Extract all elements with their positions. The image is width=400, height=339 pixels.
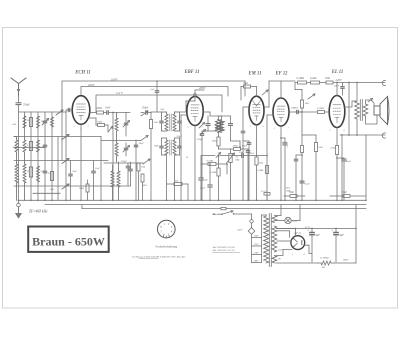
svg-text:250pF: 250pF [23,104,30,107]
svg-text:0,1: 0,1 [27,145,30,147]
svg-text:220V: 220V [237,229,243,232]
svg-text:50pF: 50pF [139,142,145,145]
power transformer heater winding 6.3V [272,216,277,223]
capacitor 500pF det [200,133,203,135]
svg-text:EF 12: EF 12 [274,72,288,77]
svg-text:50nF: 50nF [239,151,245,154]
oscillator coil stack 2 [115,143,118,156]
coil L6 row2 [37,140,40,152]
svg-text:5kΩ: 5kΩ [13,124,17,126]
wire HT left to rectifier [277,240,291,242]
resistor row2 [29,142,32,151]
resistor 2k osc [149,120,152,129]
switch arrow osc row2 [141,136,148,141]
field coil Fe [321,261,331,265]
heater bus wire middle [45,204,366,206]
capacitor 0.1uF screen [300,180,304,182]
wire secondary top to speaker [366,100,375,106]
IF2 capacitor secondary [229,123,233,125]
capacitor osc grid [134,144,137,146]
svg-text:1kΩ: 1kΩ [305,102,309,105]
vertical x201 branch [200,156,202,178]
power transformer HT winding [272,226,277,252]
vertical wire x31 [30,112,32,200]
resistor 5k [314,143,317,152]
tube EF12 envelope [273,98,289,126]
capacitor 250pF antenna series [18,96,20,102]
oscillator trimmer 2 [124,147,127,149]
svg-text:8μF: 8μF [316,234,321,237]
ground bus wire [19,199,367,201]
svg-text:1MΩ: 1MΩ [97,120,102,123]
rectifier AZ11 [291,236,305,250]
voltage tap 220V [252,254,262,256]
ground symbol earth [18,200,20,203]
svg-text:6,3V: 6,3V [278,249,283,252]
wire EBF11 plate right [203,111,210,113]
svg-text:25μF: 25μF [200,187,206,190]
mains switch wire [218,213,223,215]
capacitor row2 [43,144,46,146]
dial lamp wire [276,220,285,222]
svg-text:ZF=468 kHz: ZF=468 kHz [29,210,48,214]
wire row y193 left block [33,192,60,194]
capacitor 50nF mid [92,170,95,172]
svg-text:Sockelschaltung: Sockelschaltung [155,244,177,248]
svg-text:40Ω: 40Ω [143,184,147,187]
resistor R input [29,118,32,127]
tube ECH11 envelope [72,96,90,125]
electrolytic 5uF [199,177,203,179]
svg-text:240V: 240V [343,258,349,261]
wire ECH11 grid left [66,109,72,111]
tube EL11 envelope [329,96,345,128]
vertical wire x174 to bus [174,155,176,200]
wire EF12 top to rail [280,81,282,98]
svg-text:25μF: 25μF [346,161,351,163]
IF2 capacitor primary [206,123,210,125]
wire EM11 grid left [243,106,249,108]
svg-text:5μF: 5μF [204,179,208,182]
capacitor row3 [43,170,46,172]
padder capacitor row [126,165,129,167]
resistor 50ohm rail [326,81,333,84]
wire segment for 50ohm resistor right [330,195,343,197]
resistor 20k cathode [86,184,89,192]
wire EBF plate over detector coil [210,112,231,121]
wire heater winding top to bus [276,215,281,217]
switch arrow speaker [368,99,373,103]
output transformer secondary [363,104,368,116]
wire primary top to rail [356,83,358,102]
switch arrow band row4 [62,184,69,189]
vertical wire x240 AVC [239,141,241,147]
switch arrow below ECH11 [108,127,113,133]
bottom hook connector [382,133,385,138]
IF1 tuning capacitor primary [160,120,163,122]
svg-text:Fe 880Ω: Fe 880Ω [319,257,329,260]
oscillator coil stack 3 second winding [111,171,114,187]
svg-text:ECH 11: ECH 11 [74,71,91,76]
resistor 0.1M lower [217,168,220,176]
wire 200V rail [81,87,228,97]
switch arrow tone [308,94,315,99]
capacitor 50nF EL11 screen [294,83,296,90]
power transformer rectifier filament winding 4V [272,256,277,264]
right rail hook connector top [382,80,385,85]
IF transformer 1 secondary winding [173,114,176,131]
svg-text:0,1μF: 0,1μF [305,184,311,186]
resistor grid EL11 [318,111,325,114]
capacitor mid [294,158,297,160]
wire EBF11 cathode [194,126,196,201]
vertical wire x24 [24,112,26,137]
detector IF coil cluster [215,120,225,133]
IF transformer 1 primary winding [160,112,181,155]
vertical wire x342 down [341,135,343,200]
svg-text:AZ 11: AZ 11 [293,231,302,235]
svg-text:110V: 110V [254,235,259,238]
svg-text:+: + [307,229,309,233]
svg-text:Braun - 650W: Braun - 650W [32,235,105,249]
wire transformer bottom [275,262,277,264]
wire EM11 right [264,106,269,108]
vertical wire x101 [100,137,102,201]
svg-text:EM 11: EM 11 [248,72,262,77]
svg-text:250pF: 250pF [142,107,149,110]
speaker cone [380,97,388,125]
resistor 2k AVC [234,148,241,151]
vertical wire x113 [112,113,114,201]
vertical wire x136 [135,140,137,200]
capacitor 10nF coupling [104,112,107,114]
wire ECH11 cathode down [80,124,82,200]
wire detector AVC right [231,131,241,141]
resistor 1k osc mid [137,163,140,171]
vertical wire x38 [37,112,39,200]
wire mid row y164 [104,162,143,164]
svg-text:8μF: 8μF [340,234,345,237]
svg-text:50nF: 50nF [242,145,248,148]
svg-text:500pF: 500pF [197,138,204,141]
coil L9 row3 [37,166,40,182]
wire RF row1 [19,111,67,113]
capacitor 10nF cathode area [69,173,72,175]
resistor 1.2M EF12 grid leak [265,166,268,174]
wire HT winding second anode [277,230,290,232]
switch arrow osc row1 [141,111,148,116]
output transformer primary [355,101,360,119]
resistor EL11 cathode [335,146,338,155]
wire det row y148 [218,148,220,149]
IF transformer 1 lower winding pair [165,140,168,155]
capacitor 50nF AF coupling [241,154,243,158]
fuse on heater line near transformer [264,193,270,196]
tube EBF11 envelope [187,97,203,126]
Bei text underline [213,251,240,253]
dial lamp [285,217,291,223]
resistor row3 [29,167,32,177]
svg-text:220V: 220V [254,252,260,255]
wire filament winding to rectifier [276,250,292,256]
svg-text:Farbbezug: Punkt 220/240 V, 46: Farbbezug: Punkt 220/240 V, 468 kHz, KW:… [131,255,186,258]
wire y135 mid [302,134,316,136]
resistor 200ohm plate [95,112,98,114]
resistor 5k EM11 cathode [255,157,258,165]
vertical wire x45 [44,112,46,200]
wire 160V rail [62,81,245,161]
wire to voltage selector [251,214,253,220]
wire EL11 cathode [336,128,338,201]
svg-text:5nF: 5nF [151,88,156,91]
resistor 1k screen EF12 [300,100,303,108]
svg-text:1MΩ: 1MΩ [154,146,159,148]
wire ECH11 plate right [90,112,96,114]
vertical wire x52 [51,112,53,200]
wire EL11 grid [328,111,330,113]
tube ECH11 internal electrodes [77,104,86,120]
capacitor AVC right [246,150,249,152]
resistor 30k row4 [50,172,53,181]
voltage tap 125V [252,245,262,247]
rectifier internal electrodes [294,239,297,242]
resistor 1M grid leak ECH11 [89,117,96,119]
short row y147 left [14,147,45,149]
svg-text:10kΩ: 10kΩ [212,140,218,143]
wire EF12 plate to coupling [289,111,296,113]
wire RF row3 [14,160,108,162]
wire mid row y140 [101,140,141,142]
antenna coil L2 [37,116,40,128]
wire HT winding top to anode [276,229,296,236]
EBF11 top cap [194,94,197,97]
wire HT plus rail [276,228,356,230]
svg-text:Bei 110/125V: Si 1,5A: Bei 110/125V: Si 1,5A [213,249,235,252]
title box Braun 650W [28,227,109,252]
wire stub bus2 branch [81,205,83,209]
power transformer core [268,214,270,267]
wire rectifier output plus [305,245,312,253]
switch arrow osc row3 [143,159,150,164]
vertical wire x366 down [365,135,367,200]
wire EM11 cathode [256,125,258,201]
speaker voice coil [374,97,389,125]
component on lower heater bus [221,207,226,209]
switch arrow EM11 [262,90,268,95]
antenna coil L1 [14,110,69,200]
svg-text:25μF: 25μF [282,141,288,144]
tube EBF11 internal electrodes [191,105,199,121]
coil L4 row2 [15,140,18,152]
wire AF row y155 [201,155,215,157]
oscillator padder 270pF [129,168,132,170]
wire segment for 50ohm resistor [284,195,290,197]
mains switch blade [221,213,223,215]
electrolytic capacitor 8uF first [310,232,314,234]
trimmer capacitor input [43,120,46,122]
svg-text:5kΩ: 5kΩ [319,146,323,149]
wire x356 vertical [355,205,357,263]
wire x227 AVC junction [226,164,228,174]
IF1 lower capacitor [160,145,163,147]
wire EF12 grid left [267,114,273,116]
capacitor EM11 grid [241,130,244,132]
IF1 tuning capacitor secondary [178,120,181,122]
coil L8 row3 [23,164,26,183]
capacitor grid ECH11 [67,108,69,111]
wire secondary bottom to speaker [366,115,378,124]
svg-text:MΩ: MΩ [235,158,240,161]
capacitor EL11 cathode bypass [337,157,344,159]
svg-text:240V: 240V [254,260,260,263]
vertical wire x157 [156,81,158,90]
voltage selector diamond [248,228,255,235]
socket bottom pin stubs [163,236,165,238]
svg-text:270pF: 270pF [121,160,128,163]
switch arrow band row2 [62,135,69,140]
svg-text:0,1MΩ: 0,1MΩ [297,77,305,80]
svg-text:1,2MΩ: 1,2MΩ [257,169,264,172]
capacitor coupling EF12-EL11 [296,110,298,113]
capacitor 25uF EF12 cathode electrolytic [283,142,287,144]
coil L5 row2 [23,140,26,152]
svg-text:20nF: 20nF [293,107,299,110]
oscillator trimmer 1 [124,122,127,124]
wire speaker line bottom [340,134,385,136]
resistor 0.3M AF [208,163,216,166]
svg-text:50nF: 50nF [95,168,100,170]
resistor 0.1M rail [298,81,307,84]
mains input terminal arrow [213,213,218,215]
power transformer primary winding [264,216,269,263]
junction dots on ground bus [18,200,20,202]
wire EBF11 left pin [181,114,187,116]
wire RF row2 [14,136,101,138]
vertical det to resistor [218,132,220,137]
svg-text:+: + [287,146,289,149]
oscillator coil stack 1 [111,113,120,201]
electrolytic 25uF [209,164,211,185]
tube socket diagram circle [158,220,176,238]
svg-text:125V: 125V [254,243,260,246]
svg-text:50nF: 50nF [250,153,255,155]
tube EM11 internal electrodes [253,104,261,120]
wire bottom HT return [276,262,318,264]
antenna [11,78,26,96]
wire rail to speaker line [348,83,350,136]
wire antenna down to ground bus [18,105,20,201]
IF transformer 1 core [169,114,171,131]
diode switch arrows [199,123,205,129]
vertical wire x58 [57,137,59,201]
coil L7 row3 [15,164,18,183]
wire 260V screen [195,90,204,94]
heater bus wire lower [82,208,366,210]
resistor 1M EM11 top [244,85,251,88]
wire IF1 secondary to EBF11 top cap [180,101,187,112]
svg-text:20kΩ: 20kΩ [79,188,84,190]
svg-text:8Ω: 8Ω [322,266,325,269]
svg-text:0,3MΩ: 0,3MΩ [207,159,214,162]
switch arrow det [216,153,221,158]
svg-text:10nF: 10nF [105,107,111,110]
EM11 target fan [253,101,261,107]
wire 112V rail [96,95,222,113]
wire EL11 top [336,83,338,96]
switch arrow band row3 [62,159,69,164]
wire selector down [251,234,253,262]
svg-text:5kΩ: 5kΩ [259,161,263,164]
capacitor 250pF osc top [145,111,147,114]
resistor on screen feed [301,146,304,153]
svg-text:0,7MΩ: 0,7MΩ [317,107,324,110]
coil L3 [51,117,54,127]
fuse circle [250,220,253,223]
svg-text:EL 11: EL 11 [331,70,343,75]
oscillator coil stack 3 [117,171,120,187]
svg-text:50Ω: 50Ω [325,77,330,80]
fine print underline [139,258,158,260]
svg-text:2MΩ: 2MΩ [233,144,238,147]
resistor 50ohm inline right [343,195,350,198]
svg-text:150Ω: 150Ω [330,147,336,150]
svg-text:+: + [331,229,333,233]
svg-text:EBF 11: EBF 11 [184,70,200,75]
switch arrow band row1 [56,110,63,115]
resistor 50ohm inline [290,195,297,198]
svg-text:6,2kΩ: 6,2kΩ [310,77,317,80]
svg-text:5kΩ: 5kΩ [161,109,165,111]
resistor 1k horizontal lower [174,183,182,186]
output transformer core [359,100,361,121]
svg-text:1MΩ: 1MΩ [243,82,248,85]
capacitor 50nF EM11 cathode [247,142,250,144]
electrolytic capacitor 8uF second [335,229,337,232]
svg-text:1kΩ: 1kΩ [141,166,145,169]
svg-text:0,1MΩ: 0,1MΩ [210,171,217,174]
volume potentiometer [229,154,232,163]
svg-text:112 V: 112 V [116,91,124,95]
voltage tap 240V [252,262,262,264]
vertical wire x302 down [301,112,303,200]
svg-text:30pF: 30pF [50,189,55,191]
resistor 6.2k rail [311,81,320,84]
wire EF12 cathode [280,126,282,200]
svg-text:200Ω: 200Ω [96,107,102,110]
svg-text:50Ω: 50Ω [289,191,294,194]
wire primary bottom down [356,119,358,135]
vertical x218 lower [218,156,220,168]
svg-text:50nF: 50nF [286,188,291,190]
tube EM11 envelope [249,96,264,125]
resistor 10k osc lower [141,174,144,182]
wire RF row4 [14,185,130,187]
tube EF12 internal electrodes [277,106,285,122]
vertical wire x166 to bus [166,155,168,200]
svg-text:2kΩ: 2kΩ [154,121,158,124]
voltage tap 110V [252,237,262,239]
svg-text:250pF: 250pF [177,136,183,138]
wire 245V rail [295,82,385,84]
wire EL11 plate to output transformer [345,101,357,107]
power transformer primary rail [261,215,263,263]
tube EL11 internal electrodes [333,105,341,123]
wire lamp to heater bus [291,220,300,222]
resistor 10k detector load [217,137,220,146]
svg-text:10nF: 10nF [72,171,77,173]
